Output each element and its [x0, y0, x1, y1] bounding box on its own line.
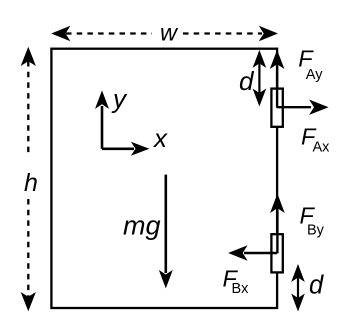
height dimension arrow h (dashed, double-headed): [21, 47, 36, 311]
svg-text:By: By: [307, 222, 325, 238]
label F_Ax: [301, 124, 330, 156]
hinge B (bottom, white-filled rectangle over right edge): [271, 234, 282, 272]
label mg: [123, 210, 161, 240]
force arrow F_Ay (up along right edge at hinge A): [270, 50, 285, 108]
label y: [111, 84, 128, 114]
width dimension arrow w (dashed, double-headed): [51, 26, 278, 41]
hinge A (top, white-filled rectangle over right edge): [271, 89, 282, 127]
force arrow F_By (up along right edge at hinge B): [270, 194, 285, 254]
svg-text:mg: mg: [123, 210, 161, 240]
coordinate axes x-y: [95, 90, 149, 155]
svg-text:Ay: Ay: [306, 67, 323, 83]
plate rectangle: [51, 49, 277, 308]
label h: [24, 169, 38, 197]
svg-text:x: x: [152, 123, 168, 153]
distance arrow d (top, double-headed): [253, 50, 267, 107]
force arrow F_Bx (left from hinge B pin): [228, 245, 277, 260]
label d (bottom): [309, 272, 324, 300]
label F_Ay: [298, 46, 323, 83]
label x: [152, 123, 168, 153]
svg-text:w: w: [160, 20, 179, 46]
svg-text:h: h: [24, 169, 38, 197]
svg-text:d: d: [309, 272, 324, 300]
svg-text:Bx: Bx: [232, 281, 250, 297]
label w: [160, 20, 179, 46]
svg-text:Ax: Ax: [313, 139, 331, 155]
force arrow F_Ax (right from hinge A pin): [277, 100, 329, 115]
svg-text:y: y: [111, 84, 128, 114]
distance arrow d (bottom, double-headed): [291, 264, 305, 312]
gravity force arrow mg: [159, 175, 173, 289]
label F_By: [300, 203, 325, 239]
label F_Bx: [223, 266, 250, 297]
svg-text:d: d: [239, 66, 255, 96]
label d (top): [239, 66, 255, 96]
